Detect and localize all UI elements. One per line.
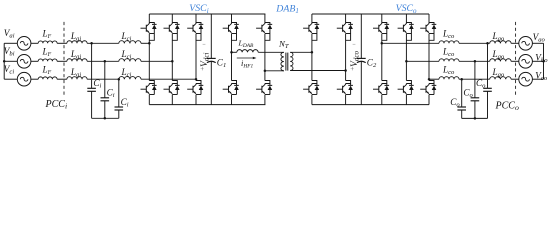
node: filter cap junction phase b: [104, 60, 107, 63]
capacitor Ci phase c: [115, 79, 124, 118]
IGBT leg at x=312 (DAB secondary leg 1) - lower IGBT with antiparallel diode: [303, 81, 319, 105]
wire: transformer primary bottom to DAB leg2 midpoint: [265, 70, 284, 72]
node: midpoint tap of VSC_i leg b: [171, 60, 174, 63]
wire: Ci common neutral rail: [92, 117, 119, 120]
inductor Lgo phase c: [490, 77, 511, 80]
wire Lco to junction phase c: [459, 78, 490, 80]
IGBT leg at x=382 (VSC_o leg a) - lower IGBT with antiparallel diode: [373, 81, 389, 105]
node: left neutral bus: [3, 43, 6, 79]
svg-text:PCCo: PCCo: [495, 100, 519, 112]
IGBT leg at x=406 (VSC_o leg b) - upper IGBT with antiparallel diode: [398, 14, 414, 81]
IGBT leg at x=232 (DAB primary leg 1) - upper IGBT with antiparallel diode: [223, 14, 239, 81]
voltage source Vci: [4, 72, 38, 86]
voltage source Vco: [519, 72, 544, 86]
node: right neutral bus: [542, 43, 545, 79]
wire Lci to VSCi leg phase c: [141, 78, 196, 80]
capacitor C1 dc-link: [207, 14, 216, 105]
IGBT leg at x=172 (VSC_i leg b) - upper IGBT with antiparallel diode: [164, 14, 180, 81]
wire Lgo to source phase c: [511, 78, 519, 80]
IGBT leg at x=196 (VSC_i leg c) - lower IGBT with antiparallel diode: [187, 81, 203, 105]
label V_dco (rotated): [349, 50, 361, 66]
wire Lgo to source phase a: [511, 42, 519, 44]
wire Lco to junction phase a: [459, 42, 490, 44]
IGBT leg at x=406 (VSC_o leg b) - lower IGBT with antiparallel diode: [398, 81, 414, 105]
capacitor Ci phase a: [87, 43, 96, 118]
node: midpoint tap of VSC_i leg c: [195, 78, 198, 81]
wire VSC_o leg to Lco phase b: [406, 60, 439, 62]
wire Lf to Lgi phase a: [57, 42, 67, 44]
wire Lgo to source phase b: [511, 60, 519, 62]
node: midpoint tap of VSC_o leg a: [381, 42, 384, 45]
wire: DAB secondary / VSC_o + rail: [312, 13, 429, 15]
node: midpoint tap of DAB secondary leg 1: [311, 51, 314, 54]
voltage source Vai: [4, 37, 38, 51]
wire: transformer secondary top to DAB secondary leg1: [290, 51, 312, 53]
voltage source Vbo: [519, 55, 544, 69]
IGBT leg at x=265 (DAB primary leg 2) - lower IGBT with antiparallel diode: [256, 81, 272, 105]
wire: Co common neutral rail: [462, 117, 488, 120]
IGBT leg at x=312 (DAB secondary leg 1) - upper IGBT with antiparallel diode: [303, 14, 319, 81]
current arrow i_HF1: [237, 57, 257, 60]
svg-text:PCCi: PCCi: [45, 99, 68, 111]
IGBT leg at x=346 (DAB secondary leg 2) - upper IGBT with antiparallel diode: [337, 14, 353, 81]
node: filter cap junction phase a: [90, 42, 93, 45]
inductor Lci phase c: [119, 77, 141, 80]
wire Lci to VSCi leg phase b: [141, 60, 172, 62]
wire Lgi to Lci phase c: [87, 78, 119, 80]
PCC_i dashed boundary line: [63, 22, 65, 96]
inductor Lco phase b: [439, 59, 459, 61]
inductor Lgi phase c: [67, 77, 87, 80]
wire VSC_o leg to Lco phase a: [382, 42, 439, 44]
svg-text:+: +: [200, 66, 204, 73]
IGBT leg at x=172 (VSC_i leg b) - lower IGBT with antiparallel diode: [164, 81, 180, 105]
capacitor Co phase c: [457, 79, 466, 118]
IGBT leg at x=429 (VSC_o leg c) - upper IGBT with antiparallel diode: [420, 14, 436, 81]
voltage source Vbi: [4, 55, 38, 69]
node: midpoint tap of VSC_i leg a: [148, 42, 151, 45]
wire: transformer secondary bottom to DAB secondary leg2: [290, 70, 345, 72]
wire VSC_o leg to Lco phase c: [429, 78, 439, 80]
polarity marks V_dco: [350, 42, 356, 73]
transformer N_T secondary winding: [290, 52, 293, 70]
inductor Lco phase c: [439, 77, 459, 80]
capacitor C2 dc-link: [357, 14, 366, 105]
svg-text:VSCi: VSCi: [189, 3, 208, 15]
polarity marks V_dci: [200, 42, 206, 73]
wire Lgi to Lci phase b: [87, 60, 119, 62]
inductor Lci phase a: [119, 41, 141, 44]
node: output filter cap junction phase b: [474, 60, 477, 63]
capacitor Co phase b: [471, 61, 480, 118]
IGBT leg at x=149 (VSC_i leg a) - upper IGBT with antiparallel diode: [141, 14, 157, 81]
wire Lf to Lgi phase c: [57, 78, 67, 80]
inductor L_DAB: [237, 50, 258, 53]
svg-text:+: +: [350, 66, 354, 73]
wire Lf to Lgi phase b: [57, 60, 67, 62]
node: filter cap junction phase c: [118, 78, 121, 81]
inductor Lgo phase b: [490, 59, 511, 62]
inductor Lco phase a: [439, 41, 459, 44]
label V_dci (rotated): [199, 52, 211, 66]
wire Lgi to Lci phase a: [87, 42, 119, 44]
inductor Lci phase b: [119, 59, 141, 62]
node: midpoint tap of VSC_o leg b: [405, 60, 408, 63]
node: midpoint tap of DAB primary leg 1: [230, 51, 233, 54]
transformer N_T primary winding: [281, 52, 284, 70]
node: output filter cap junction phase c: [460, 78, 463, 81]
inductor Lf phase a: [38, 41, 57, 43]
inductor Lgo phase a: [490, 41, 511, 44]
node: midpoint tap of VSC_o leg c: [428, 78, 431, 81]
wire Lco to junction phase b: [459, 60, 490, 62]
wire: VSC_i / DAB primary - rail: [149, 104, 265, 106]
wire Lci to VSCi leg phase a: [141, 42, 149, 44]
wire: DAB secondary / VSC_o - rail: [312, 104, 429, 106]
capacitor Co phase a: [483, 43, 492, 118]
IGBT leg at x=382 (VSC_o leg a) - upper IGBT with antiparallel diode: [373, 14, 389, 81]
inductor Lgi phase a: [67, 41, 87, 44]
IGBT leg at x=232 (DAB primary leg 1) - lower IGBT with antiparallel diode: [223, 81, 239, 105]
PCC_o dashed boundary line: [515, 22, 517, 96]
node: output filter cap junction phase a: [486, 42, 489, 45]
node: midpoint tap of DAB primary leg 2: [264, 70, 267, 73]
inductor Lf phase b: [38, 59, 57, 61]
IGBT leg at x=196 (VSC_i leg c) - upper IGBT with antiparallel diode: [187, 14, 203, 81]
IGBT leg at x=346 (DAB secondary leg 2) - lower IGBT with antiparallel diode: [337, 81, 353, 105]
wire: L_DAB to transformer primary: [258, 51, 284, 53]
node: midpoint tap of DAB secondary leg 2: [344, 69, 347, 72]
IGBT leg at x=149 (VSC_i leg a) - lower IGBT with antiparallel diode: [141, 81, 157, 105]
IGBT leg at x=429 (VSC_o leg c) - lower IGBT with antiparallel diode: [420, 81, 436, 105]
transformer core: [286, 53, 288, 71]
svg-text:DAB1: DAB1: [275, 3, 299, 15]
wire: VSC_i / DAB primary + rail: [149, 13, 265, 15]
inductor Lgi phase b: [67, 59, 87, 62]
IGBT leg at x=265 (DAB primary leg 2) - upper IGBT with antiparallel diode: [256, 14, 272, 81]
wire: DAB leg1 midpoint to L_DAB: [232, 51, 237, 53]
voltage source Vao: [519, 37, 544, 51]
inductor Lf phase c: [38, 77, 57, 79]
capacitor Ci phase b: [101, 61, 110, 118]
